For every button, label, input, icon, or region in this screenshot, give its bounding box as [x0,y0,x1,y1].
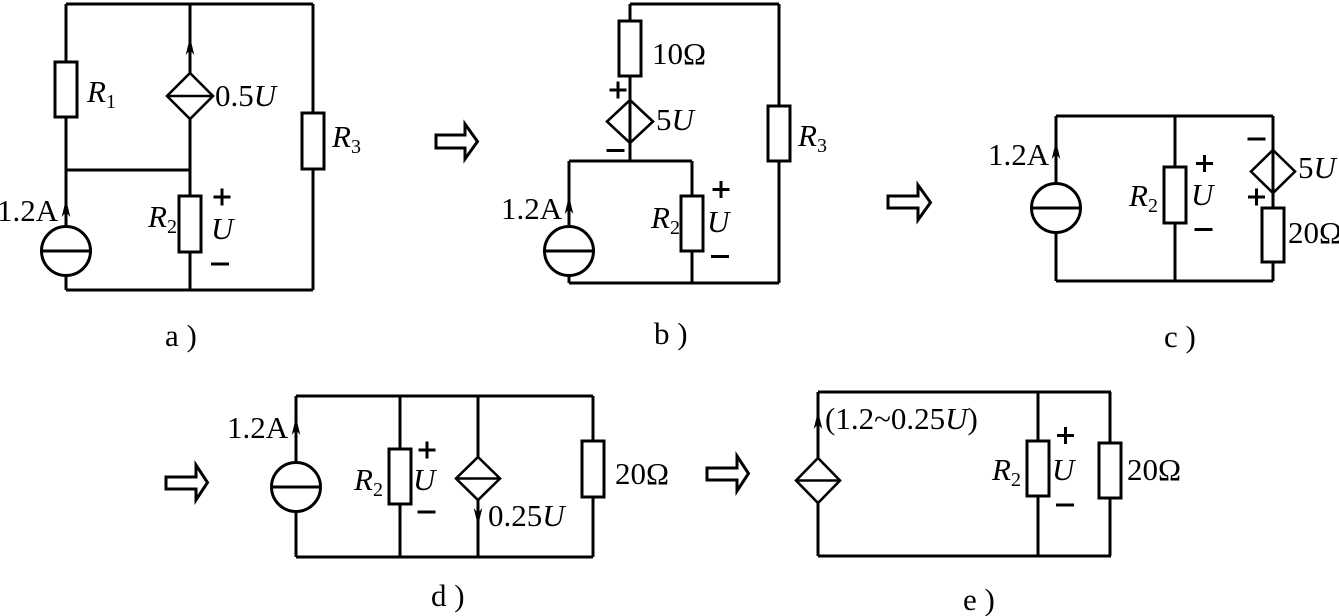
wire: left branch a between R1 and middle node [65,117,68,227]
resistor 20ohm box e [1099,443,1121,498]
wire: left branch d below source [295,512,298,558]
wire: middle branch a below R2 [189,252,192,290]
wire: bottom wire d [296,556,593,559]
svg-text:10Ω: 10Ω [652,36,706,71]
wire: top wire d [296,395,593,398]
dependent source diamond e [796,458,840,503]
wire: right branch b lower [778,161,781,283]
svg-text:c ): c ) [1164,319,1196,354]
current source 1.2A circle c [1032,184,1081,233]
resistor R3 box a [302,113,324,169]
wire: right branch b upper [778,4,781,106]
wire: R2 branch b lower [691,251,694,283]
wire: top wire e [818,391,1111,394]
resistor R2 box a [179,196,201,252]
wire: diamond branch d upper [477,396,480,457]
svg-text:U: U [1052,452,1077,487]
svg-text:1.2A: 1.2A [227,410,289,445]
wire: R2 branch c upper [1174,116,1177,167]
arrow head on 1.2A source wire c [1052,141,1061,159]
resistor 10ohm box b [619,21,641,76]
current source 1.2A bar c [1032,207,1081,210]
plus sign of U in a [214,189,231,206]
wire: left branch c below source [1055,233,1058,282]
arrow head on dependent source branch a [186,37,195,55]
current source 1.2A bar a [42,250,91,253]
wire: left branch a below source [65,276,68,291]
arrow head down on 0.25U branch d [474,508,483,526]
svg-text:5U: 5U [1298,150,1339,185]
resistor R2 box b [681,196,703,251]
arrow head on 1.2A source wire b [565,196,574,214]
wire: diamond branch d lower [477,500,480,557]
current source 1.2A bar d [272,486,321,489]
svg-text:U: U [707,204,732,239]
minus sign of U in d [418,511,436,514]
current source 1.2A bar b [545,250,594,253]
wire: right branch e upper [1109,392,1112,443]
wire: bottom wire e [818,555,1111,558]
wire: left branch e upper [817,392,820,458]
plus sign of U in d [419,442,436,459]
wire: horizontal wire b [569,160,692,163]
arrow head on dependent source wire e [814,411,823,429]
wire: middle branch b top [629,4,632,21]
wire: left branch b below source [568,276,571,284]
resistor R2 box e [1027,441,1049,496]
wire: left branch a upper [65,4,68,62]
dependent source 5U diamond b [607,100,653,143]
dependent source 0.5U bar a [167,95,213,98]
minus sign of U in a [211,263,229,266]
wire: R2 branch b upper [691,161,694,196]
svg-text:U: U [413,462,438,497]
resistor R1 box [55,62,77,117]
wire: right branch a lower [312,169,315,290]
wire: top wire c [1056,115,1273,118]
svg-text:e ): e ) [963,582,995,616]
arrow head on 1.2A source wire d [292,417,301,435]
wire: R2 branch e upper [1037,392,1040,441]
wire: bottom wire a [66,289,313,292]
svg-text:(1.2~0.25U): (1.2~0.25U) [825,401,978,436]
arrow head on 1.2A source wire a [62,199,71,217]
wire: middle branch a between diamond and R2 [189,119,192,196]
wire: left branch c upper [1055,116,1058,184]
wire: left branch b upper [568,161,571,227]
wire: middle branch a top [189,4,192,73]
resistor 20ohm box d [582,441,604,497]
wire: R2 branch d upper [399,396,402,449]
wire: top wire b [630,3,779,6]
plus sign below 5U diamond c [1248,189,1265,206]
svg-text:b ): b ) [654,316,688,351]
svg-text:5U: 5U [656,102,697,137]
svg-text:20Ω: 20Ω [1288,215,1339,250]
wire: left branch e lower [817,503,820,556]
wire: right branch c through diamond [1272,150,1275,208]
dependent source 0.25U bar d [456,477,500,480]
svg-text:0.25U: 0.25U [488,498,567,533]
resistor R2 box c [1164,167,1186,223]
svg-text:0.5U: 0.5U [215,78,279,113]
dependent source 5U diamond c [1251,150,1295,193]
resistor R2 box d [389,449,411,504]
wire: right branch e lower [1109,498,1112,556]
wire: right branch c lower [1272,262,1275,281]
plus sign of U in e [1057,427,1074,444]
wire: left branch d upper [295,396,298,463]
wire: bottom wire c [1056,280,1273,283]
plus sign above 5U diamond b [610,82,627,99]
current source 1.2A circle b [545,227,594,276]
minus sign of U in c [1195,228,1213,231]
plus sign of U in c [1196,155,1213,172]
svg-text:d ): d ) [431,578,465,613]
wire: R2 branch e lower [1037,496,1040,556]
svg-text:20Ω: 20Ω [1127,452,1181,487]
wire: right branch d lower [592,497,595,557]
wire: right branch c top [1272,116,1275,150]
minus sign above 5U diamond c [1248,138,1266,141]
wire: R2 branch c lower [1174,223,1177,281]
dependent source 0.5U diamond a [167,73,213,119]
svg-text:U: U [211,211,236,246]
svg-text:1.2A: 1.2A [0,193,59,228]
current source 1.2A circle d [272,463,321,512]
current source 1.2A circle a [42,227,91,276]
wire: right branch d upper [592,396,595,441]
wire: middle horizontal wire a [66,169,190,172]
wire: right branch a upper [312,4,315,113]
svg-text:1.2A: 1.2A [501,191,563,226]
wire: top wire a [66,3,313,6]
svg-text:1.2A: 1.2A [988,137,1050,172]
svg-text:a ): a ) [165,318,197,353]
dependent source bar e [796,479,840,482]
wire: bottom wire b [569,282,779,285]
minus sign of U in e [1056,504,1074,507]
minus sign below 5U diamond b [607,149,625,152]
resistor R3 box b [768,106,790,161]
wire: R2 branch d lower [399,504,402,557]
minus sign of U in b [711,255,729,258]
dependent source 0.25U diamond d [456,457,500,500]
svg-text:20Ω: 20Ω [615,456,669,491]
wire: middle branch b through diamond [629,76,632,161]
svg-text:U: U [1191,177,1216,212]
plus sign of U in b [713,181,730,198]
resistor 20ohm box c [1262,208,1284,262]
